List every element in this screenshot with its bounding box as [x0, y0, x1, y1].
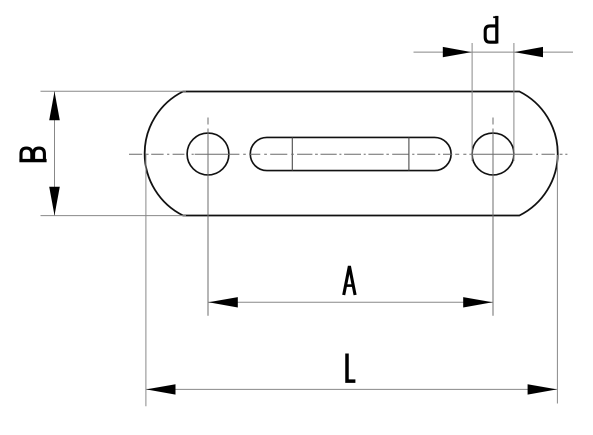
label L	[347, 354, 355, 382]
A arrow left	[209, 297, 238, 307]
A arrow right	[463, 297, 492, 307]
B arrow top	[49, 92, 60, 121]
left hole	[187, 133, 229, 175]
d extension line left	[471, 43, 473, 161]
slot inner line left	[291, 137, 293, 170]
slot	[250, 137, 451, 170]
d arrow right	[514, 47, 543, 57]
label B	[19, 148, 46, 161]
right hole centerline	[492, 129, 494, 316]
label A	[344, 266, 355, 295]
horizontal centerline	[129, 153, 567, 155]
left hole centerline	[207, 129, 209, 316]
right hole	[472, 133, 514, 175]
L extension line left	[145, 154, 147, 407]
d dimension line	[414, 51, 574, 53]
L extension line right	[556, 155, 558, 404]
L arrow right	[528, 384, 557, 394]
L arrow left	[146, 384, 175, 394]
A dimension line	[209, 301, 493, 303]
B extension line top	[41, 90, 187, 92]
slot inner line right	[408, 137, 410, 170]
d arrow left	[443, 47, 472, 57]
B arrow bottom	[49, 187, 60, 216]
left hole centerline dash	[207, 118, 209, 125]
label d	[485, 16, 498, 44]
B extension line bottom	[41, 215, 187, 217]
plate outline	[145, 92, 558, 216]
right hole centerline dash	[492, 118, 494, 125]
d extension line right	[513, 43, 515, 161]
L dimension line	[146, 388, 557, 390]
B dimension line	[54, 92, 56, 216]
